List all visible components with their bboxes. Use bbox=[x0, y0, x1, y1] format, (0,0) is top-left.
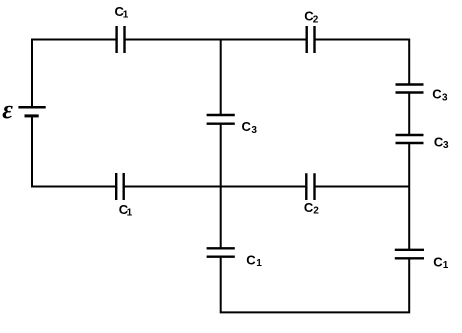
capacitor C3 middle plates bbox=[207, 115, 235, 124]
wire: left lower + middle-left segment bbox=[32, 116, 116, 187]
battery E long plate bbox=[18, 106, 45, 109]
capacitor C2 top plates bbox=[307, 26, 315, 53]
svg-text:1: 1 bbox=[443, 260, 449, 271]
svg-text:1: 1 bbox=[123, 10, 129, 21]
svg-text:C: C bbox=[433, 255, 443, 270]
wire: left upper + top-left segment bbox=[32, 40, 117, 108]
wire: right lower + bottom wire + middle vertical lower bbox=[221, 257, 410, 313]
battery E short plate bbox=[25, 114, 39, 117]
svg-text:C: C bbox=[246, 253, 256, 268]
svg-text:2: 2 bbox=[313, 14, 319, 25]
capacitor C1 top plates bbox=[117, 26, 125, 53]
wire: top right segment + right upper bbox=[315, 40, 410, 85]
label C3 right-upper bbox=[432, 86, 448, 103]
svg-text:3: 3 bbox=[251, 125, 257, 136]
label C2 bottom bbox=[304, 200, 319, 217]
wire: middle horizontal center segment bbox=[124, 186, 307, 188]
capacitor C3 right-upper plates bbox=[396, 85, 424, 93]
wire: middle vertical between C3 and bottom C1 bbox=[220, 124, 222, 249]
svg-text:3: 3 bbox=[442, 93, 448, 104]
label C1 bottom-middle bbox=[246, 253, 262, 270]
label C3 middle bbox=[242, 119, 258, 136]
wire: middle horizontal right segment bbox=[315, 186, 410, 188]
wire: top middle segment bbox=[125, 39, 307, 41]
label C1 bottom-left bbox=[119, 202, 133, 219]
wire: right between C3 and C3 bbox=[408, 93, 410, 136]
capacitor C2 bottom plates bbox=[306, 173, 314, 200]
capacitor C1 bottom-left plates bbox=[116, 173, 124, 200]
label C1 bottom-right bbox=[433, 255, 449, 272]
label C2 top bbox=[304, 9, 318, 26]
svg-text:1: 1 bbox=[256, 258, 262, 269]
label C1 top bbox=[115, 4, 129, 21]
label C3 right-lower bbox=[434, 134, 449, 151]
svg-text:3: 3 bbox=[443, 140, 449, 151]
wire: right from lower C3 to bottom-right C1 bbox=[408, 143, 410, 250]
svg-text:2: 2 bbox=[313, 206, 319, 217]
svg-text:C: C bbox=[432, 86, 442, 101]
capacitor C1 bottom-middle plates bbox=[207, 248, 235, 256]
svg-text:C: C bbox=[242, 119, 252, 134]
wire: middle vertical top bbox=[220, 40, 222, 116]
capacitor C3 right-lower plates bbox=[396, 135, 424, 143]
svg-text:1: 1 bbox=[127, 208, 133, 219]
svg-text:ε: ε bbox=[2, 95, 13, 124]
capacitor C1 bottom-right plates bbox=[395, 250, 424, 258]
